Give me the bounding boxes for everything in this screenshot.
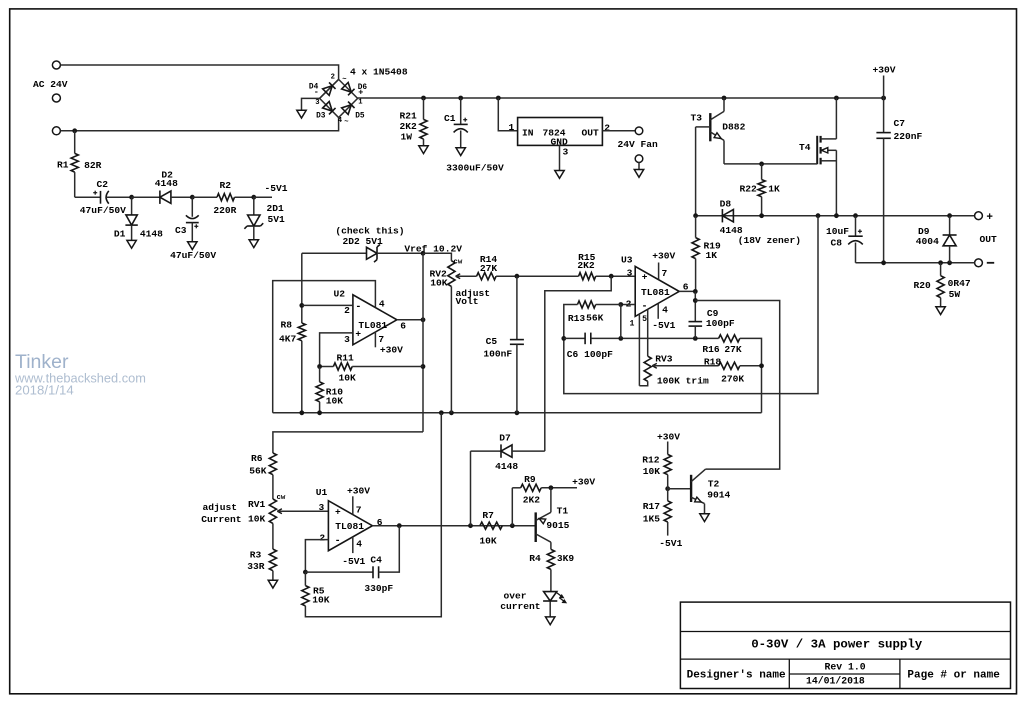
svg-text:+30V: +30V <box>652 251 675 262</box>
svg-text:1: 1 <box>358 99 363 107</box>
svg-text:R2: R2 <box>220 180 232 191</box>
svg-text:1: 1 <box>509 122 515 133</box>
svg-text:9015: 9015 <box>546 520 569 531</box>
svg-text:~: ~ <box>342 76 346 84</box>
svg-text:2: 2 <box>319 533 325 544</box>
svg-text:-: - <box>335 536 341 547</box>
svg-text:+: + <box>358 88 363 98</box>
svg-text:+30V: +30V <box>873 65 896 76</box>
svg-text:270K: 270K <box>721 374 744 385</box>
svg-text:100pF: 100pF <box>706 318 735 329</box>
svg-text:7: 7 <box>662 268 668 279</box>
svg-text:Volt: Volt <box>456 296 479 307</box>
svg-text:current: current <box>500 601 540 612</box>
svg-text:TL081: TL081 <box>335 521 364 532</box>
svg-text:5: 5 <box>642 315 647 324</box>
svg-text:10K: 10K <box>312 595 330 606</box>
svg-text:100nF: 100nF <box>483 349 512 360</box>
svg-text:RV1: RV1 <box>248 499 266 510</box>
svg-text:10K: 10K <box>643 466 661 477</box>
svg-text:3: 3 <box>319 502 325 513</box>
svg-text:4K7: 4K7 <box>279 334 297 345</box>
svg-text:47uF/50V: 47uF/50V <box>80 205 126 216</box>
svg-text:10K: 10K <box>248 514 266 525</box>
svg-text:1K: 1K <box>768 183 780 194</box>
svg-text:-: - <box>314 87 319 97</box>
svg-text:U3: U3 <box>621 255 633 266</box>
svg-text:R6: R6 <box>251 453 263 464</box>
svg-text:R11: R11 <box>337 352 355 363</box>
svg-text:2K2: 2K2 <box>577 260 595 271</box>
svg-text:D7: D7 <box>499 433 511 444</box>
svg-text:47uF/50V: 47uF/50V <box>170 250 216 261</box>
svg-text:Rev 1.0: Rev 1.0 <box>825 662 866 673</box>
svg-text:C6 100pF: C6 100pF <box>567 349 613 360</box>
svg-text:TL081: TL081 <box>641 287 670 298</box>
svg-text:0-30V / 3A power supply: 0-30V / 3A power supply <box>751 638 923 652</box>
svg-text:1K5: 1K5 <box>643 514 661 525</box>
svg-text:T1: T1 <box>557 505 569 516</box>
svg-text:R1: R1 <box>57 160 69 171</box>
svg-text:4148: 4148 <box>495 461 518 472</box>
svg-text:C1: C1 <box>444 113 456 124</box>
svg-text:2: 2 <box>331 74 335 82</box>
svg-text:C5: C5 <box>486 336 498 347</box>
svg-text:10uF: 10uF <box>826 226 849 237</box>
svg-text:56K: 56K <box>249 465 267 476</box>
svg-text:R12: R12 <box>642 455 660 466</box>
svg-text:Current: Current <box>201 514 241 525</box>
svg-text:2D2 5V1: 2D2 5V1 <box>343 236 384 247</box>
svg-text:4148: 4148 <box>140 228 163 239</box>
svg-text:14/01/2018: 14/01/2018 <box>806 676 865 687</box>
svg-text:R22: R22 <box>740 183 758 194</box>
svg-text:+30V: +30V <box>380 344 403 355</box>
svg-text:5V1: 5V1 <box>268 214 286 225</box>
svg-text:1K: 1K <box>706 250 718 261</box>
svg-text:1: 1 <box>629 319 634 328</box>
svg-text:-5V1: -5V1 <box>265 183 288 194</box>
svg-text:C3: C3 <box>175 225 187 236</box>
svg-text:C2: C2 <box>97 179 109 190</box>
svg-text:3: 3 <box>627 267 633 278</box>
svg-text:+: + <box>986 212 993 224</box>
svg-text:+30V: +30V <box>347 486 370 497</box>
svg-text:10K: 10K <box>339 373 357 384</box>
svg-text:+30V: +30V <box>572 476 595 487</box>
svg-text:4: 4 <box>379 299 385 310</box>
svg-text:82R: 82R <box>84 160 102 171</box>
svg-text:3: 3 <box>344 334 350 345</box>
svg-text:D3: D3 <box>316 112 326 120</box>
svg-text:T2: T2 <box>708 479 720 490</box>
svg-text:R3: R3 <box>250 549 262 560</box>
svg-text:3: 3 <box>315 99 319 107</box>
svg-text:2K2: 2K2 <box>523 495 541 506</box>
svg-text:220nF: 220nF <box>894 131 923 142</box>
svg-text:OUT: OUT <box>980 234 998 245</box>
svg-text:2K2: 2K2 <box>400 121 418 132</box>
svg-text:R13: R13 <box>568 313 586 324</box>
svg-text:10K: 10K <box>479 536 497 547</box>
svg-text:4: 4 <box>338 117 343 125</box>
svg-text:cw: cw <box>277 494 286 502</box>
svg-text:-5V1: -5V1 <box>659 538 682 549</box>
svg-text:-: - <box>355 302 361 313</box>
svg-text:T4: T4 <box>799 142 811 153</box>
svg-text:-5V1: -5V1 <box>652 320 675 331</box>
svg-text:+: + <box>355 328 361 339</box>
svg-text:C8: C8 <box>831 238 843 249</box>
svg-text:R4: R4 <box>529 553 541 564</box>
svg-text:5W: 5W <box>949 289 961 300</box>
svg-text:D882: D882 <box>722 122 745 133</box>
svg-text:27K: 27K <box>724 344 742 355</box>
svg-text:3K9: 3K9 <box>557 553 575 564</box>
svg-text:+: + <box>642 271 648 282</box>
svg-text:330pF: 330pF <box>364 583 393 594</box>
svg-text:3300uF/50V: 3300uF/50V <box>446 162 504 173</box>
svg-text:7: 7 <box>356 505 362 516</box>
svg-text:4 x 1N5408: 4 x 1N5408 <box>350 67 408 78</box>
svg-text:+30V: +30V <box>657 432 680 443</box>
svg-text:R8: R8 <box>281 320 293 331</box>
svg-text:R7: R7 <box>482 510 494 521</box>
svg-text:OUT: OUT <box>582 128 600 139</box>
svg-text:(18V zener): (18V zener) <box>738 235 801 246</box>
svg-text:R9: R9 <box>524 474 536 485</box>
svg-text:4148: 4148 <box>155 178 178 189</box>
svg-text:Page # or name: Page # or name <box>907 670 1000 682</box>
svg-text:D8: D8 <box>720 199 732 210</box>
svg-text:4004: 4004 <box>916 236 939 247</box>
svg-text:6: 6 <box>400 320 406 331</box>
svg-text:1W: 1W <box>401 132 413 143</box>
svg-text:0R47: 0R47 <box>948 278 971 289</box>
svg-text:adjust: adjust <box>203 502 238 513</box>
svg-text:R17: R17 <box>643 501 661 512</box>
svg-text:2D1: 2D1 <box>267 203 285 214</box>
svg-text:3: 3 <box>563 147 569 158</box>
svg-text:(check this): (check this) <box>335 225 404 236</box>
svg-text:220R: 220R <box>213 205 236 216</box>
svg-text:T3: T3 <box>691 113 703 124</box>
svg-text:27K: 27K <box>480 263 498 274</box>
svg-text:R18: R18 <box>704 356 722 367</box>
svg-text:2018/1/14: 2018/1/14 <box>15 382 74 397</box>
svg-text:4: 4 <box>356 539 362 550</box>
svg-text:C4: C4 <box>370 555 382 566</box>
svg-text:IN: IN <box>522 128 534 139</box>
svg-text:D1: D1 <box>114 229 126 240</box>
svg-text:TL081: TL081 <box>358 320 387 331</box>
svg-text:U1: U1 <box>316 487 328 498</box>
svg-text:cw: cw <box>453 258 462 266</box>
svg-text:6: 6 <box>683 281 689 292</box>
svg-text:2: 2 <box>604 122 610 133</box>
svg-text:24V Fan: 24V Fan <box>618 139 659 150</box>
svg-text:10K: 10K <box>326 396 344 407</box>
svg-text:R16: R16 <box>702 344 720 355</box>
svg-text:AC 24V: AC 24V <box>33 79 68 90</box>
svg-text:-: - <box>641 302 647 313</box>
svg-text:-5V1: -5V1 <box>342 556 365 567</box>
svg-text:Designer's name: Designer's name <box>687 670 786 682</box>
svg-text:RV3: RV3 <box>655 354 673 365</box>
svg-text:2: 2 <box>344 305 350 316</box>
svg-text:10K: 10K <box>430 278 448 289</box>
svg-text:R21: R21 <box>400 110 418 121</box>
svg-text:C7: C7 <box>894 118 906 129</box>
svg-text:D5: D5 <box>355 112 365 120</box>
svg-text:56K: 56K <box>586 312 604 323</box>
svg-text:4: 4 <box>662 304 668 315</box>
svg-text:U2: U2 <box>334 289 346 300</box>
svg-text:~: ~ <box>344 118 348 126</box>
svg-text:R20: R20 <box>914 280 932 291</box>
svg-text:9014: 9014 <box>707 490 730 501</box>
svg-text:+: + <box>335 506 341 517</box>
svg-text:33R: 33R <box>247 561 265 572</box>
svg-text:100K trim: 100K trim <box>657 375 709 386</box>
